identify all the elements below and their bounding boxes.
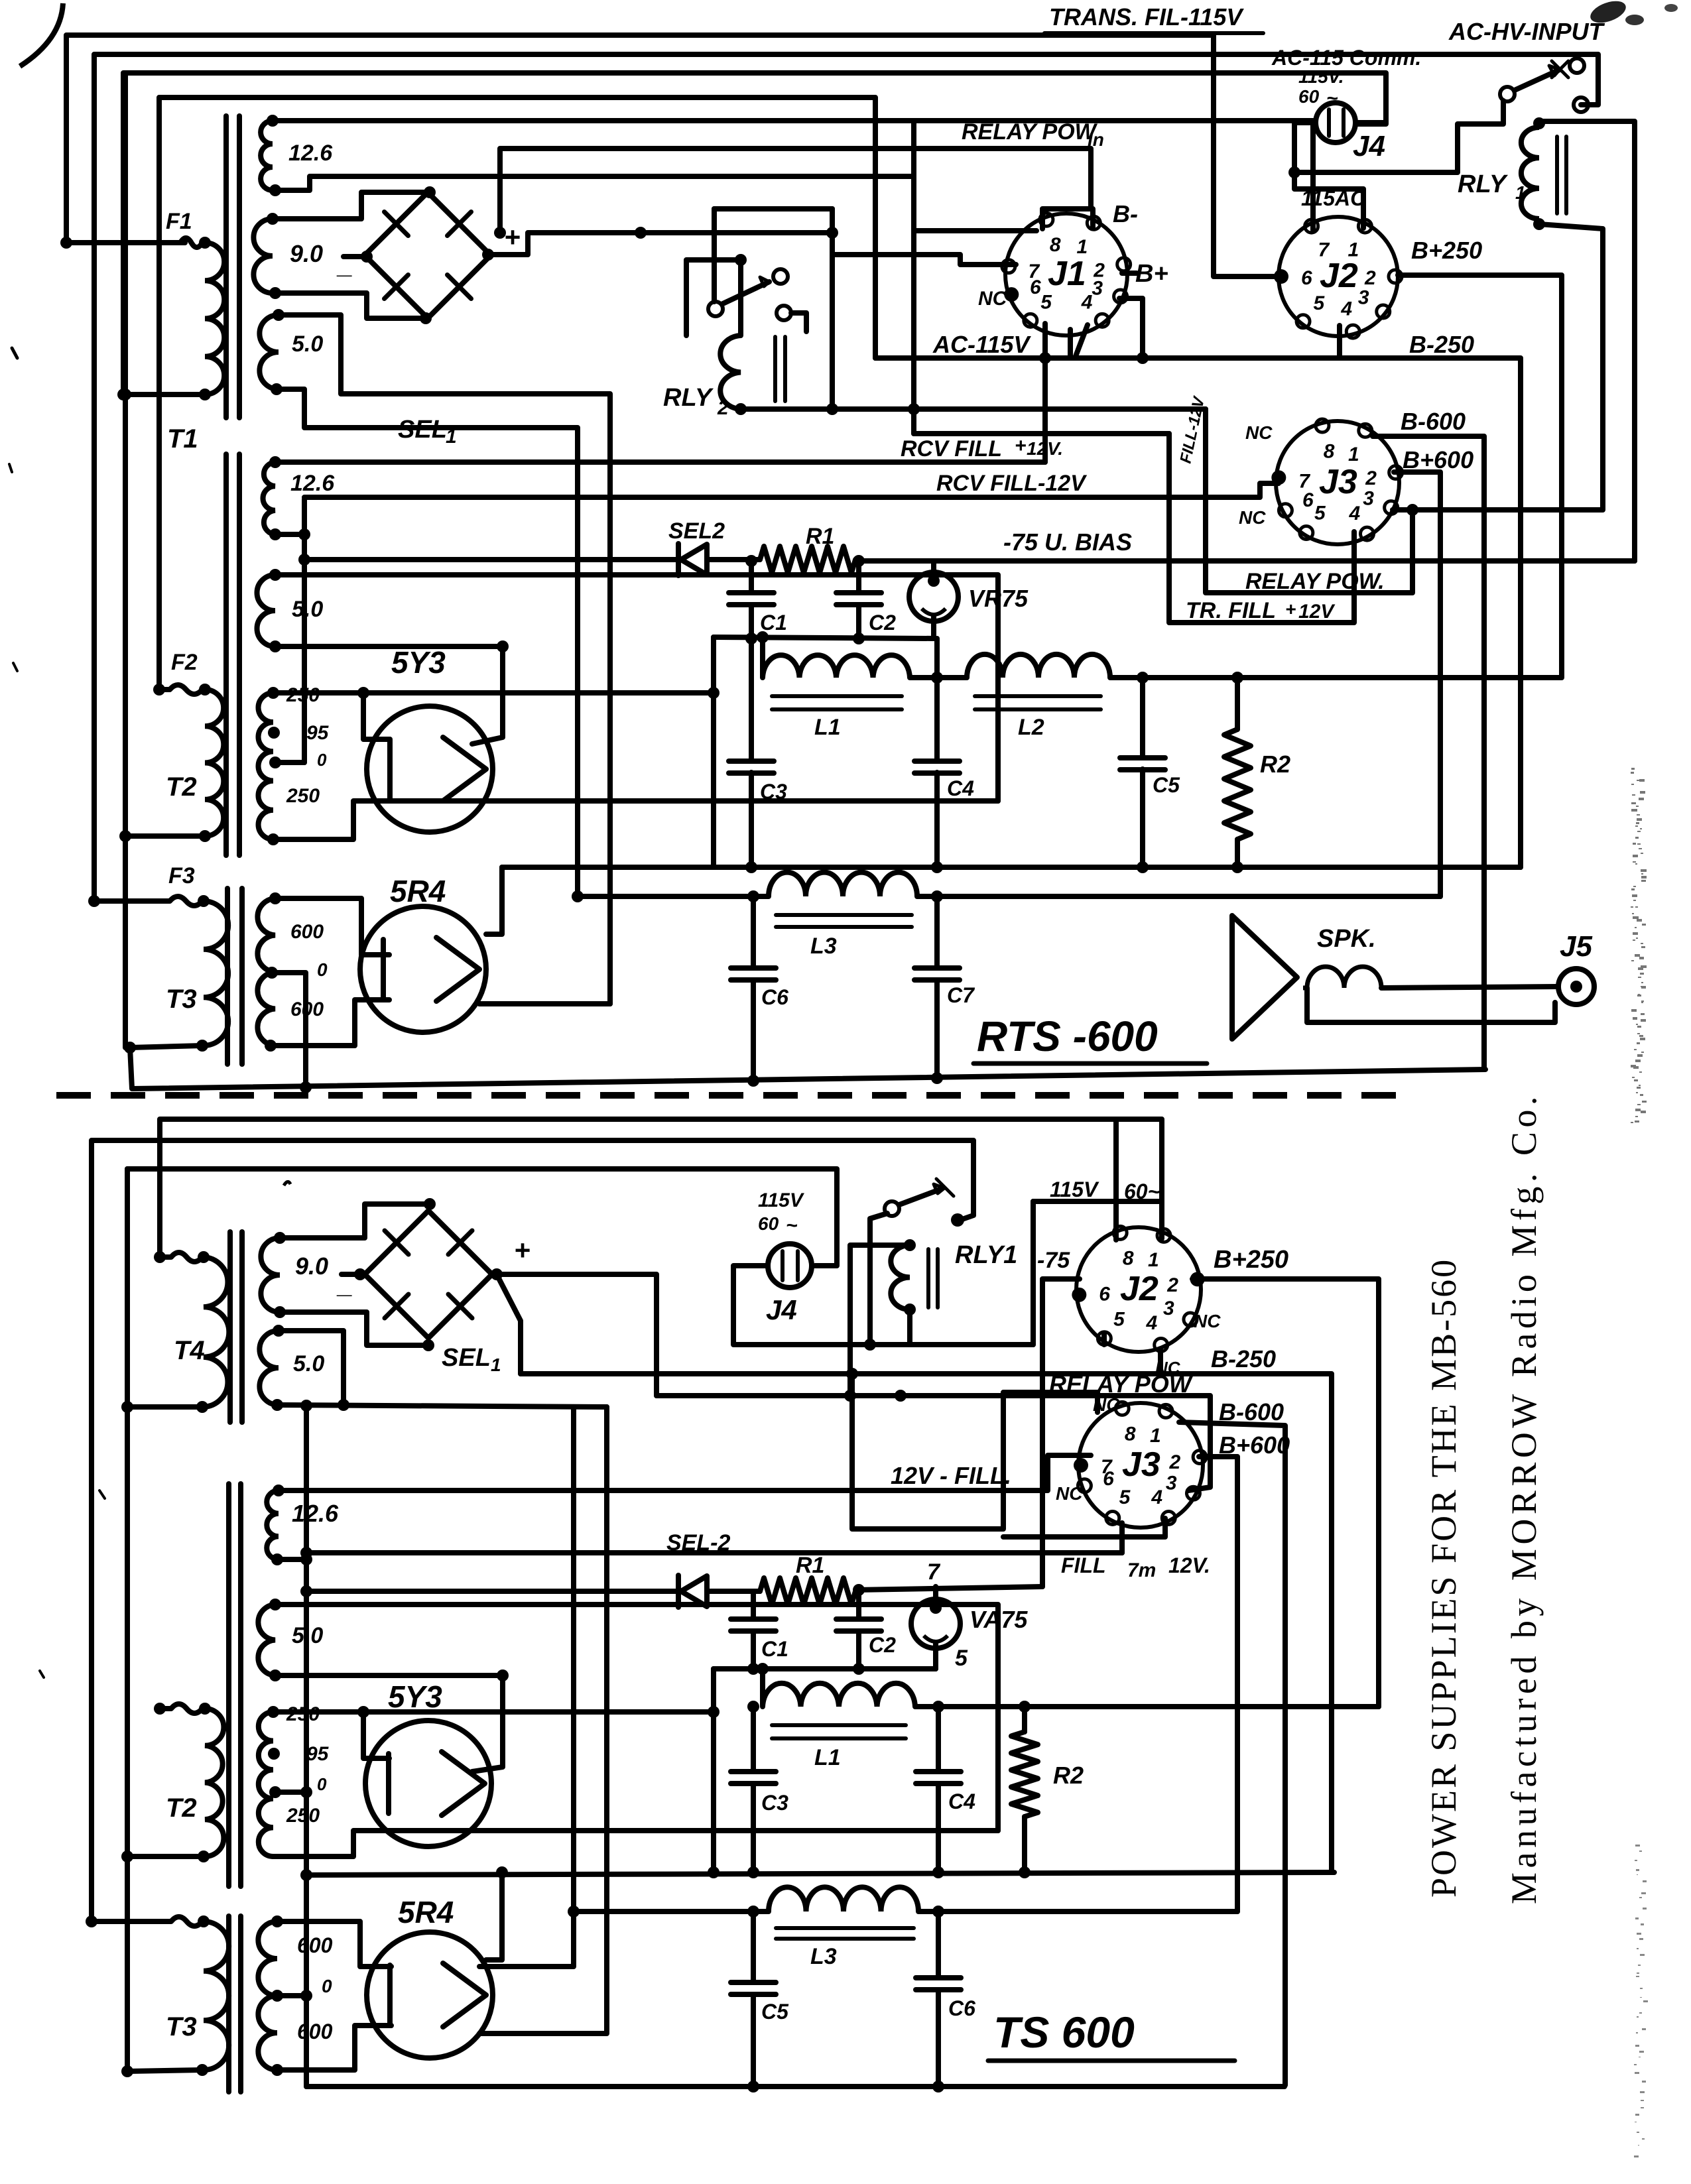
switch AC-HV	[1500, 87, 1515, 101]
wire RCV FILL-12V	[275, 532, 304, 537]
svg-text:0: 0	[317, 1774, 327, 1794]
T3b 600-0-600 winding	[258, 1921, 277, 2070]
wire VR75 gnd down to C4	[934, 638, 940, 761]
svg-text:SPK.: SPK.	[1317, 925, 1376, 953]
svg-text:RCV FILL: RCV FILL	[901, 436, 1002, 461]
svg-text:7: 7	[1318, 239, 1330, 261]
svg-text:5: 5	[1040, 291, 1052, 313]
svg-text:C7: C7	[947, 983, 975, 1007]
svg-text:C4: C4	[948, 1790, 975, 1813]
svg-text:95: 95	[306, 1743, 330, 1765]
svg-text:1: 1	[1150, 1425, 1161, 1447]
wire 0b tap	[275, 1790, 306, 1795]
wire 5.0 bottom to 5Y3	[275, 646, 503, 744]
wire 250 top / plate line	[273, 690, 714, 696]
svg-text:RLY: RLY	[663, 384, 714, 412]
svg-text:3: 3	[1092, 278, 1103, 300]
capacitor C2 bottom	[856, 1591, 861, 1619]
svg-text:SEL2: SEL2	[668, 518, 725, 544]
wire 5R4b upper plate	[486, 1872, 502, 1960]
svg-text:8: 8	[1123, 1248, 1134, 1270]
wire SEL1 + output	[488, 233, 832, 255]
T1 5.0 winding	[259, 315, 279, 389]
wire 5R4 plate to bus1	[486, 867, 502, 934]
svg-text:AC-HV-INPUT: AC-HV-INPUT	[1448, 18, 1605, 45]
connector J3 bottom socket	[1078, 1403, 1203, 1528]
choke L3 bottom	[769, 1887, 918, 1911]
wire 9.0 bottom to bridge b	[280, 1312, 428, 1345]
T3 primary	[204, 901, 228, 1046]
voltage regulator VR75 bottom	[911, 1599, 960, 1648]
wire primary return vertical	[123, 73, 128, 1048]
wire switch pivot down	[870, 1213, 887, 1345]
svg-text:L1: L1	[814, 1745, 841, 1770]
capacitor C7	[934, 896, 940, 968]
resistor R1	[707, 557, 760, 562]
svg-text:C5: C5	[1153, 773, 1180, 797]
stray marks left margin	[12, 348, 17, 358]
svg-text:6: 6	[1099, 1284, 1110, 1305]
svg-text:C1: C1	[761, 1637, 788, 1661]
svg-text:C3: C3	[760, 780, 787, 804]
wire speaker to J5	[1381, 987, 1558, 988]
svg-text:L2: L2	[1018, 715, 1044, 740]
wire 250 rail bottom	[915, 1704, 1379, 1709]
capacitor C5	[1140, 678, 1145, 758]
svg-text:T2: T2	[166, 772, 197, 802]
wire -75 to J2b pin6	[1042, 1279, 1080, 1587]
svg-text:+: +	[514, 1235, 531, 1266]
svg-text:J3: J3	[1122, 1445, 1160, 1484]
T2 HV winding 250-95-0-250	[258, 693, 273, 839]
wire 9.0 bottom to bridge	[275, 293, 426, 318]
wire bottom bus b	[306, 2084, 1284, 2089]
svg-text:115V: 115V	[758, 1189, 805, 1211]
rectifier tube 5R4 bottom	[367, 1932, 493, 2058]
T4 5.0 winding	[259, 1331, 279, 1405]
wire L-rail stub	[760, 637, 765, 678]
rectifier tube 5Y3 bottom	[365, 1721, 491, 1847]
svg-text:RELAY POW: RELAY POW	[1049, 1370, 1194, 1398]
wire bus2 right	[917, 894, 1440, 899]
diode SEL2 bottom	[306, 1589, 678, 1594]
wire 0b tap	[277, 1993, 306, 1998]
wire W2 AC-HV-INPUT bus	[94, 54, 1598, 901]
connector J2 bottom socket	[1076, 1227, 1201, 1352]
svg-text:1: 1	[1348, 239, 1359, 261]
svg-text:AC-115 Comm.: AC-115 Comm.	[1271, 46, 1421, 70]
socket J4 bottom	[768, 1244, 812, 1288]
svg-text:NC: NC	[1093, 1394, 1120, 1415]
svg-text:+: +	[1285, 599, 1296, 619]
wire bus2 B+600 rail left	[578, 894, 769, 899]
diode SEL2	[304, 557, 678, 562]
svg-text:3: 3	[1166, 1472, 1177, 1494]
transformer T4 core	[227, 1232, 233, 1422]
voltage regulator VR75	[909, 572, 958, 621]
svg-text:B-600: B-600	[1219, 1398, 1284, 1426]
svg-text:F2: F2	[171, 650, 198, 675]
capacitor C1 bottom	[751, 1591, 756, 1619]
fuse F1	[66, 240, 185, 245]
svg-text:AC-115V: AC-115V	[932, 331, 1031, 358]
capacitor C3 bottom	[751, 1707, 756, 1772]
svg-text:6: 6	[1301, 267, 1312, 289]
connector J1 socket	[1005, 213, 1127, 335]
T2 12.6 winding	[263, 462, 276, 534]
svg-text:NC: NC	[1239, 507, 1266, 528]
svg-text:B-600: B-600	[1401, 408, 1466, 435]
RLY2 core	[773, 337, 777, 401]
wire bus1 bottom	[306, 1872, 1334, 1875]
svg-text:B-: B-	[1113, 200, 1138, 227]
wire J3b pin4 stub	[1003, 1518, 1165, 1537]
svg-text:2: 2	[1168, 1451, 1180, 1473]
transformer T2 core	[223, 454, 229, 855]
wire 5.0b top	[279, 1331, 344, 1405]
rectifier tube 5Y3	[367, 706, 493, 832]
svg-text:4: 4	[1151, 1486, 1162, 1508]
svg-text:2: 2	[1365, 467, 1377, 489]
svg-text:NC: NC	[1194, 1311, 1221, 1331]
svg-text:T4: T4	[174, 1336, 205, 1365]
wire B-250 line bottom	[521, 1374, 1332, 1872]
svg-text:-75 U. BIAS: -75 U. BIAS	[1003, 528, 1132, 556]
wire RELAY POW in	[500, 149, 1091, 233]
svg-text:0: 0	[317, 750, 327, 770]
speaker amp triangle	[1232, 916, 1297, 1039]
svg-text:TS 600: TS 600	[993, 2008, 1135, 2057]
wire B-600 bottom	[1179, 1422, 1285, 2085]
svg-text:600: 600	[290, 921, 324, 943]
wire bus1 B-250 rail	[502, 865, 1521, 870]
wire 12.6 bottom jog	[275, 176, 914, 190]
wire bus2 bottom rail	[574, 1909, 769, 1914]
svg-text:5Y3: 5Y3	[388, 1679, 442, 1714]
choke L1	[763, 655, 910, 678]
svg-text:5: 5	[1313, 292, 1325, 314]
resistor R2	[1235, 678, 1240, 729]
svg-text:R2: R2	[1053, 1762, 1084, 1789]
capacitor C4 bottom	[936, 1707, 941, 1772]
transformer T1 primary	[205, 243, 224, 394]
svg-text:NC: NC	[1056, 1483, 1083, 1504]
svg-text:L3: L3	[810, 1944, 837, 1969]
transformer T3 core	[225, 888, 230, 1064]
fuse F2	[153, 684, 165, 696]
wire 5.0 top	[275, 575, 998, 801]
wire to J1 pin7	[832, 255, 1016, 265]
svg-text:4: 4	[1349, 503, 1361, 524]
T4 9.0 winding	[261, 1238, 280, 1312]
svg-text:250: 250	[286, 785, 320, 807]
svg-text:J4: J4	[1353, 130, 1385, 162]
connector J3 socket	[1276, 421, 1399, 544]
T3b primary	[204, 1921, 229, 2070]
relay RLY1	[1533, 117, 1545, 129]
wire 12.6b top to J3b pin7	[279, 1455, 1091, 1490]
wire B+600	[1394, 472, 1440, 896]
svg-text:J1: J1	[1048, 255, 1086, 293]
svg-text:0: 0	[322, 1976, 332, 1996]
wire 9.0 top to bridge b	[280, 1204, 430, 1238]
svg-text:115AC: 115AC	[1301, 186, 1366, 210]
svg-text:J3: J3	[1319, 463, 1357, 501]
transformer T3 bottom core	[226, 1916, 231, 2092]
wire 600b top to 5R4b	[277, 1921, 391, 1967]
svg-text:60: 60	[1298, 86, 1320, 107]
fuse F3	[88, 895, 100, 907]
svg-text:L3: L3	[810, 934, 837, 959]
svg-text:6: 6	[1103, 1468, 1114, 1490]
wire J2b pin4 stub	[1158, 1350, 1163, 1374]
wire bottom bus	[130, 1048, 1485, 1089]
T3 600-0-600 winding	[257, 898, 275, 1046]
svg-text:C3: C3	[761, 1791, 788, 1815]
svg-text:5: 5	[955, 1646, 968, 1671]
wire 600 top to 5R4	[275, 898, 389, 955]
svg-text:1: 1	[1515, 182, 1526, 203]
wire relay pow horizontal	[657, 1393, 850, 1398]
wire -75 bias bottom	[855, 1587, 1042, 1590]
svg-text:C6: C6	[948, 1996, 975, 2020]
wire pin5 stub b	[1101, 1334, 1107, 1345]
resistor R2 bottom	[1022, 1707, 1027, 1732]
capacitor C6 bottom	[936, 1911, 941, 1978]
wire J1 pin5 vertical	[1042, 324, 1048, 462]
svg-text:B-250: B-250	[1409, 331, 1474, 358]
wire AC-115V / B-250 line	[875, 358, 1521, 867]
wire switch top link	[714, 206, 832, 212]
svg-text:C1: C1	[760, 611, 787, 635]
wire J2b pin8 vertical	[1113, 1119, 1119, 1240]
svg-text:2: 2	[717, 397, 729, 419]
capacitor C4	[914, 758, 960, 764]
svg-text:5: 5	[1314, 502, 1326, 524]
wire relay feed vertical	[830, 209, 835, 409]
wire 0 tap	[275, 760, 304, 765]
svg-text:T3: T3	[166, 2012, 197, 2041]
svg-text:POWER SUPPLIES FOR THE MB-560: POWER SUPPLIES FOR THE MB-560	[1424, 1258, 1464, 1898]
svg-text:1: 1	[1348, 444, 1359, 465]
svg-text:-75: -75	[1037, 1248, 1070, 1273]
svg-text:2: 2	[1166, 1274, 1178, 1296]
wire B+250 bottom	[1192, 1279, 1379, 1707]
capacitor C5 bottom	[751, 1911, 756, 1982]
wire L-rail stub bottom	[760, 1669, 765, 1707]
transformer T2 bottom core	[226, 1484, 231, 1886]
T2b 12.6 winding	[267, 1490, 279, 1559]
svg-text:12V: 12V	[1298, 601, 1336, 623]
connector J2 socket	[1279, 217, 1398, 336]
svg-text:12V.: 12V.	[1168, 1553, 1210, 1577]
wire + diagonal branch	[497, 1274, 521, 1374]
svg-text:5,0: 5,0	[292, 1623, 323, 1648]
wire 0 tap down	[272, 973, 306, 1087]
RLY2 switch arm	[723, 282, 769, 304]
wire 5.0 top to 5R4 filament	[279, 315, 610, 1004]
svg-text:RCV FILL-12V: RCV FILL-12V	[936, 471, 1088, 496]
wire C-ground bus	[714, 637, 934, 638]
svg-text:4: 4	[1145, 1312, 1157, 1334]
wire J1 pin3 stub	[1119, 298, 1143, 358]
wire 865 vertical to bus2b	[479, 1407, 574, 1967]
scanner noise right edge	[1631, 768, 1635, 770]
svg-text:1: 1	[491, 1355, 501, 1375]
wire speaker return	[1307, 988, 1555, 1022]
svg-text:95: 95	[306, 722, 330, 744]
wire 250b bottom filament line	[273, 1831, 998, 1856]
wire gnd down to bus1	[711, 637, 716, 867]
svg-text:C4: C4	[947, 776, 974, 800]
wire SEL1 minus stub	[344, 254, 367, 259]
wire 915 vertical to 5R4b	[479, 1407, 607, 2033]
svg-text:12V - FILL.: 12V - FILL.	[891, 1462, 1011, 1489]
wire 250 rail to B+250	[1110, 275, 1562, 678]
wire J4b loop	[733, 1266, 1033, 1345]
wire C ground bus bottom	[714, 1666, 936, 1671]
svg-text:B+600: B+600	[1403, 446, 1473, 473]
svg-text:B-250: B-250	[1211, 1345, 1276, 1372]
capacitor C1	[749, 561, 754, 593]
svg-text:5.0: 5.0	[292, 597, 323, 622]
stub to J2 pin4	[1337, 326, 1342, 358]
svg-text:RLY: RLY	[1458, 170, 1509, 198]
svg-text:R1: R1	[806, 524, 834, 549]
switch bottom	[885, 1201, 899, 1216]
choke L2	[967, 654, 1110, 678]
T2 5.0 winding	[257, 575, 276, 646]
svg-text:VA75: VA75	[970, 1606, 1028, 1633]
capacitor C6	[751, 896, 756, 968]
wire 5R4 lower plate	[479, 1001, 610, 1006]
svg-text:250: 250	[286, 1805, 320, 1827]
svg-text:F1: F1	[166, 209, 192, 234]
svg-text:J2: J2	[1320, 257, 1358, 295]
wire bottom bus V1	[160, 1119, 1162, 1257]
stub to J1 pin4	[1068, 330, 1073, 358]
transformer T1 core	[223, 116, 229, 418]
wire vertical 1378	[911, 121, 916, 434]
fuse T4 input	[154, 1251, 166, 1263]
svg-text:8: 8	[1050, 234, 1061, 256]
wire 12.6 top to J2 pin7	[273, 121, 1313, 230]
wire 462 vertical	[304, 1406, 309, 2087]
wire bus2 bottom right	[918, 1909, 1237, 1914]
svg-text:R1: R1	[796, 1553, 824, 1578]
svg-text:600: 600	[297, 1933, 333, 1957]
wire 5.0b top line	[275, 1605, 998, 1831]
svg-text:5.0: 5.0	[293, 1351, 324, 1376]
T1 12.6 winding	[261, 121, 273, 190]
svg-text:0: 0	[317, 959, 328, 980]
rectifier SEL1 bridge bottom	[365, 1211, 492, 1338]
svg-text:7: 7	[927, 1559, 941, 1585]
wire 12V-FILL box	[852, 1374, 1097, 1529]
svg-text:6: 6	[1030, 276, 1041, 298]
svg-text:TRANS. FIL-115V: TRANS. FIL-115V	[1049, 3, 1244, 30]
resistor R1 bottom	[707, 1589, 760, 1594]
svg-text:B+250: B+250	[1214, 1246, 1288, 1274]
svg-text:+: +	[1015, 435, 1027, 457]
T2b 5.0 winding	[258, 1605, 275, 1675]
page corner mark	[20, 3, 63, 66]
wire 5.0b bottom rail	[277, 1405, 607, 1407]
svg-text:T2: T2	[166, 1793, 197, 1823]
svg-text:~: ~	[1326, 88, 1338, 109]
svg-text:In: In	[1088, 129, 1104, 150]
svg-text:7m: 7m	[1127, 1559, 1156, 1581]
wire 115AC J4 loop	[1294, 123, 1363, 228]
wire bias up right side	[1539, 121, 1635, 561]
wire W4 AC-115V bus	[159, 97, 875, 690]
wire gnd down to bus1 bottom	[711, 1669, 716, 1872]
svg-text:VR75: VR75	[968, 585, 1029, 612]
svg-text:B+: B+	[1135, 260, 1168, 288]
svg-text:5: 5	[1119, 1486, 1131, 1508]
T4 primary	[204, 1257, 229, 1407]
connector J5	[1558, 969, 1594, 1004]
socket J4	[1316, 103, 1355, 143]
svg-text:RTS -600: RTS -600	[977, 1012, 1158, 1060]
svg-text:6: 6	[1302, 489, 1314, 511]
wire J1 pin4 stub	[1075, 325, 1088, 358]
capacitor C3	[729, 758, 774, 764]
speaker SPK coil	[1303, 967, 1381, 988]
svg-text:J2: J2	[1120, 1270, 1159, 1308]
wire 600 bottom to 5R4	[271, 1000, 389, 1046]
svg-text:3: 3	[1163, 1298, 1174, 1319]
wire 9.0 top to bridge	[273, 192, 430, 219]
svg-text:5R4: 5R4	[390, 874, 446, 908]
T2 primary	[205, 690, 223, 836]
svg-text:5: 5	[1113, 1309, 1125, 1331]
svg-text:600: 600	[297, 2020, 333, 2043]
wire 600b bottom to 5R4b	[277, 2026, 391, 2070]
wire B+600 bottom	[1199, 1457, 1237, 1911]
T2b primary	[205, 1709, 223, 1856]
relay RLY2 switch box	[686, 260, 741, 335]
svg-text:FILL: FILL	[1061, 1553, 1106, 1577]
divider dashed line	[56, 1092, 1416, 1099]
svg-text:B+600: B+600	[1219, 1431, 1290, 1459]
rectifier SEL1 bridge	[365, 192, 491, 318]
wire RCV FILL+12V	[275, 459, 1045, 465]
wire J1 B+ stub	[1122, 271, 1137, 276]
svg-text:SEL: SEL	[442, 1344, 491, 1372]
wire 5.0 bottom to bus2	[277, 389, 578, 896]
svg-text:12.6: 12.6	[288, 141, 333, 166]
wire bottom bus V2	[92, 1140, 973, 1921]
svg-text:T3: T3	[166, 985, 197, 1014]
wire RELAY POW	[1206, 409, 1412, 593]
svg-text:+: +	[504, 221, 521, 253]
wire 250b top plate line	[273, 1709, 714, 1715]
wire RLY2 to relay-pow	[741, 406, 1206, 412]
choke L3	[769, 873, 917, 896]
wire 115V loop to J2b	[1033, 1201, 1162, 1345]
wire W1 TRANS FIL-115V bus	[66, 35, 1279, 276]
wire B-600	[1373, 436, 1484, 1067]
svg-text:RELAY POW.: RELAY POW.	[1245, 569, 1385, 594]
wire J1 B- bracket	[1042, 209, 1093, 229]
fuse T3 bottom	[86, 1915, 97, 1927]
relay RLY1 bottom	[891, 1245, 910, 1309]
svg-text:1: 1	[1148, 1249, 1159, 1271]
wire bottom bus V3	[125, 1169, 130, 2071]
svg-text:RELAY POW: RELAY POW	[962, 119, 1098, 145]
svg-text:4: 4	[1081, 291, 1093, 313]
